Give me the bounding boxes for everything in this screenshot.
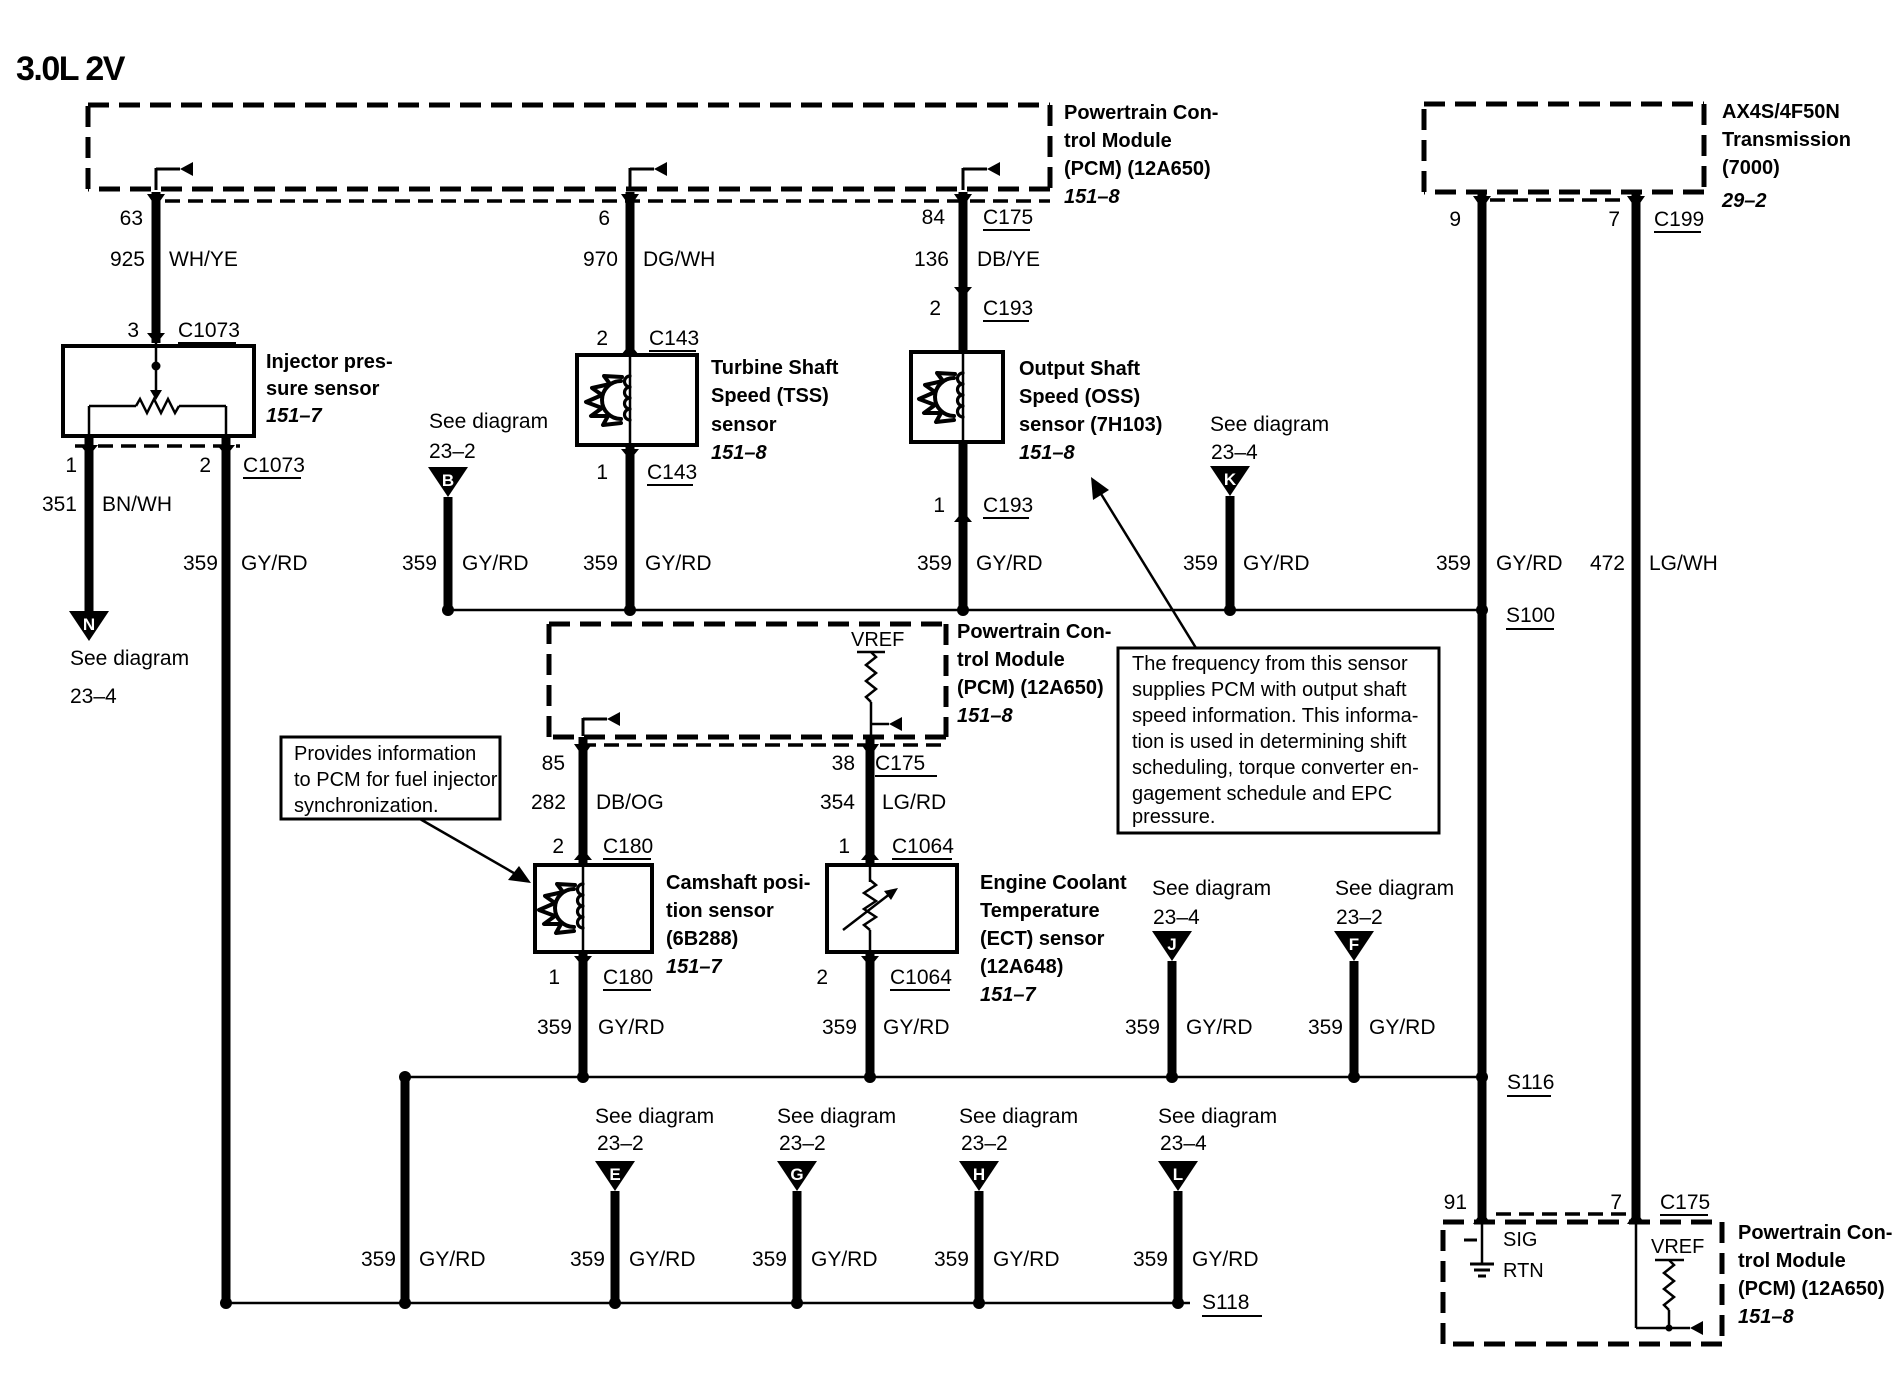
svg-text:3: 3 [127,319,139,342]
svg-text:Powertrain Con-: Powertrain Con- [1064,102,1218,124]
svg-text:136: 136 [914,248,949,271]
svg-text:VREF: VREF [851,629,904,651]
svg-text:38: 38 [832,752,855,775]
svg-text:23–2: 23–2 [779,1132,826,1155]
note2 arrowhead [1091,477,1109,500]
injector potentiometer internals [155,343,158,365]
svg-text:282: 282 [531,791,566,814]
svg-text:7: 7 [1608,208,1620,231]
svg-text:See diagram: See diagram [595,1105,714,1128]
svg-text:GY/RD: GY/RD [1192,1248,1259,1271]
svg-text:GY/RD: GY/RD [462,552,529,575]
svg-text:C1064: C1064 [890,966,952,989]
svg-text:151–8: 151–8 [1738,1306,1794,1328]
triangle connector J [1152,931,1192,961]
junction dot S118 left [220,1297,232,1309]
splice bus S116 [405,1076,1482,1079]
junction dot J/S116 [1166,1071,1178,1083]
junction dot TSS/S100 [624,604,636,616]
svg-text:23–4: 23–4 [70,685,117,708]
svg-text:359: 359 [583,552,618,575]
svg-text:sure sensor: sure sensor [266,378,380,400]
connector C175 dashed line above bottom PCM [1496,1212,1628,1216]
svg-text:151–7: 151–7 [980,984,1036,1006]
middle PCM internal arrow at pin 38 [871,723,889,726]
junction dot OSS/S100 [957,604,969,616]
svg-text:Temperature: Temperature [980,900,1100,922]
triangle connector L [1158,1161,1198,1191]
wire 359 GY/RD (L) [1174,1191,1183,1303]
svg-text:1: 1 [933,494,945,517]
svg-text:C1073: C1073 [243,454,305,477]
svg-text:91: 91 [1444,1191,1467,1214]
connector C199 dashed line under transmission [1490,198,1628,202]
Engine Coolant Temperature sensor box [827,865,957,952]
Injector pressure sensor box [63,346,254,436]
SIG RTN internal ground (bottom PCM) [1481,1222,1484,1264]
svg-text:151–8: 151–8 [1064,186,1120,208]
svg-text:151–7: 151–7 [666,956,722,978]
svg-text:DB/OG: DB/OG [596,791,664,814]
svg-text:1: 1 [65,454,77,477]
PCM internal arrow at pin 84 [962,168,965,190]
svg-text:GY/RD: GY/RD [1243,552,1310,575]
Turbine Shaft Speed sensor box [577,355,697,445]
svg-text:23–4: 23–4 [1211,441,1258,464]
svg-text:RTN: RTN [1503,1260,1544,1282]
PCM module box (top, dashed) [88,103,1050,108]
PCM internal arrow at pin 6 [629,168,632,190]
svg-text:VREF: VREF [1651,1236,1704,1258]
svg-text:S118: S118 [1202,1291,1250,1314]
svg-text:GY/RD: GY/RD [598,1016,665,1039]
junction dot camshaft/S116 [577,1071,589,1083]
svg-text:GY/RD: GY/RD [1369,1016,1436,1039]
svg-text:pressure.: pressure. [1132,806,1215,828]
svg-text:trol Module: trol Module [1738,1250,1846,1272]
svg-text:Powertrain Con-: Powertrain Con- [957,621,1111,643]
Camshaft position sensor box [535,865,652,952]
wire 359 GY/RD (B) [444,497,453,610]
PCM module box (bottom, dashed) [1443,1220,1722,1225]
svg-text:63: 63 [120,207,143,230]
svg-text:DB/YE: DB/YE [977,248,1040,271]
wire through camshaft box [582,865,585,952]
svg-text:WH/YE: WH/YE [169,248,238,271]
svg-text:C175: C175 [1660,1191,1710,1214]
svg-text:1: 1 [838,835,850,858]
svg-text:S116: S116 [1507,1071,1555,1094]
svg-text:LG/WH: LG/WH [1649,552,1718,575]
AX4S/4F50N Transmission box (dashed) [1424,102,1704,107]
svg-text:F: F [1349,935,1359,954]
junction dot S100 [1476,604,1488,616]
svg-text:970: 970 [583,248,618,271]
wire 359 GY/RD (K) [1226,496,1235,610]
svg-text:See diagram: See diagram [70,647,189,670]
svg-text:151–8: 151–8 [957,705,1013,727]
svg-text:1: 1 [596,461,608,484]
svg-text:N: N [83,615,95,634]
wire 359 GY/RD (camshaft pin 1) [579,952,588,1077]
svg-text:supplies PCM with output shaft: supplies PCM with output shaft [1132,679,1407,701]
svg-text:See diagram: See diagram [1335,877,1454,900]
wire 359 GY/RD (J) [1168,961,1177,1077]
junction dot ECT/S116 [864,1071,876,1083]
C1073 underline [178,342,236,344]
svg-text:gagement schedule and EPC: gagement schedule and EPC [1132,783,1392,805]
wire 359 GY/RD (E) [611,1191,620,1303]
wire 359 GY/RD (transmission pin 9) [1478,192,1487,1222]
svg-text:See diagram: See diagram [959,1105,1078,1128]
svg-text:359: 359 [183,552,218,575]
ECT thermistor icon [869,865,872,882]
svg-text:2: 2 [552,835,564,858]
wire 354 LG/RD (pin 38) [866,737,875,867]
svg-text:synchronization.: synchronization. [294,795,439,817]
PCM module box (middle, dashed) [549,622,946,627]
svg-text:84: 84 [922,206,946,229]
svg-text:359: 359 [1436,552,1471,575]
svg-text:359: 359 [537,1016,572,1039]
svg-text:Provides information: Provides information [294,743,476,765]
connector C175 dashed line under PCM [165,199,1050,203]
svg-text:GY/RD: GY/RD [976,552,1043,575]
svg-text:359: 359 [752,1248,787,1271]
svg-text:S100: S100 [1506,604,1555,627]
svg-text:GY/RD: GY/RD [645,552,712,575]
svg-text:G: G [790,1165,803,1184]
svg-text:23–2: 23–2 [961,1132,1008,1155]
connector C1073 dashed line under injector box [75,444,240,448]
wire 351 BN/WH [85,436,94,611]
svg-text:trol Module: trol Module [957,649,1065,671]
note box: OSS frequency explanation [1118,648,1439,833]
svg-text:J: J [1167,935,1176,954]
svg-text:See diagram: See diagram [1210,413,1329,436]
triangle connector N [69,611,109,641]
svg-text:GY/RD: GY/RD [1186,1016,1253,1039]
wire 359 GY/RD (H) [975,1191,984,1303]
junction dot E/S118 [609,1297,621,1309]
triangle connector H [959,1161,999,1191]
svg-text:Powertrain Con-: Powertrain Con- [1738,1222,1892,1244]
svg-text:H: H [973,1165,985,1184]
svg-text:speed information. This inform: speed information. This informa- [1132,705,1418,727]
svg-text:Output Shaft: Output Shaft [1019,358,1140,380]
junction dot S116 left [399,1071,411,1083]
wire 925 WH/YE (pin 63) [152,192,161,343]
junction dot K/S100 [1224,604,1236,616]
triangle connector E [595,1161,635,1191]
svg-text:Turbine Shaft: Turbine Shaft [711,357,839,379]
wire through OSS box [962,352,965,442]
svg-text:29–2: 29–2 [1721,190,1767,212]
wire 282 DB/OG (pin 85) [579,737,588,867]
svg-text:3.0L 2V: 3.0L 2V [16,50,126,88]
svg-text:359: 359 [822,1016,857,1039]
svg-text:The frequency from this sensor: The frequency from this sensor [1132,653,1408,675]
svg-text:359: 359 [1183,552,1218,575]
svg-text:tion is used in determining sh: tion is used in determining shift [1132,731,1407,753]
svg-text:(PCM) (12A650): (PCM) (12A650) [957,677,1104,699]
svg-text:GY/RD: GY/RD [241,552,308,575]
svg-text:(7000): (7000) [1722,157,1780,179]
svg-text:tion sensor: tion sensor [666,900,774,922]
svg-text:359: 359 [1125,1016,1160,1039]
svg-text:C193: C193 [983,297,1033,320]
svg-text:See diagram: See diagram [1152,877,1271,900]
svg-text:Speed (OSS): Speed (OSS) [1019,386,1140,408]
triangle connector F [1334,931,1374,961]
svg-text:scheduling, torque converter e: scheduling, torque converter en- [1132,757,1419,779]
splice bus S100 [448,609,1482,612]
svg-text:23–4: 23–4 [1160,1132,1207,1155]
svg-text:351: 351 [42,493,77,516]
svg-text:6: 6 [598,207,610,230]
svg-text:23–2: 23–2 [429,440,476,463]
svg-text:C175: C175 [875,752,925,775]
svg-text:B: B [442,471,454,490]
note2 pointer line [1098,489,1196,648]
svg-text:Camshaft posi-: Camshaft posi- [666,872,810,894]
svg-text:23–2: 23–2 [1336,906,1383,929]
wire 359 GY/RD (ECT pin 2) [866,952,875,1077]
svg-text:Speed (TSS): Speed (TSS) [711,385,829,407]
svg-text:(12A648): (12A648) [980,956,1063,978]
triangle connector K [1210,466,1250,496]
svg-text:23–4: 23–4 [1153,906,1200,929]
svg-text:Transmission: Transmission [1722,129,1851,151]
svg-text:DG/WH: DG/WH [643,248,715,271]
svg-text:359: 359 [1133,1248,1168,1271]
minus sign [1464,1239,1477,1242]
junction dot G/S118 [791,1297,803,1309]
svg-text:Injector pres-: Injector pres- [266,351,393,373]
junction dot B/S100 [442,604,454,616]
svg-text:Engine Coolant: Engine Coolant [980,872,1127,894]
svg-text:BN/WH: BN/WH [102,493,172,516]
wire 472 LG/WH (transmission pin 7) [1632,192,1641,1222]
camshaft sensor gear-coil icon [539,884,583,933]
triangle connector B [428,467,468,497]
svg-text:sensor (7H103): sensor (7H103) [1019,414,1162,436]
Output Shaft Speed sensor box [911,352,1003,442]
svg-text:151–8: 151–8 [1019,442,1075,464]
svg-text:C199: C199 [1654,208,1704,231]
splice bus S118 [226,1302,1190,1305]
junction dot L/S118 [1172,1297,1184,1309]
svg-text:(PCM) (12A650): (PCM) (12A650) [1064,158,1211,180]
svg-text:2: 2 [596,327,608,350]
note1 arrowhead [508,866,531,883]
svg-text:trol Module: trol Module [1064,130,1172,152]
svg-text:C180: C180 [603,966,653,989]
svg-text:359: 359 [1308,1016,1343,1039]
svg-text:2: 2 [199,454,211,477]
svg-text:359: 359 [934,1248,969,1271]
svg-text:See diagram: See diagram [1158,1105,1277,1128]
OSS sensor gear-coil icon [919,373,963,422]
svg-text:7: 7 [1610,1191,1622,1214]
svg-text:GY/RD: GY/RD [629,1248,696,1271]
junction dot x405/S118 [399,1297,411,1309]
svg-text:23–2: 23–2 [597,1132,644,1155]
svg-text:K: K [1224,470,1237,489]
junction dot S116 right [1476,1071,1488,1083]
svg-text:See diagram: See diagram [777,1105,896,1128]
middle PCM internal arrow at pin 85 [582,718,585,736]
junction dot H/S118 [973,1297,985,1309]
svg-text:GY/RD: GY/RD [883,1016,950,1039]
TSS sensor gear-coil icon [586,376,630,425]
svg-text:2: 2 [929,297,941,320]
svg-text:(PCM) (12A650): (PCM) (12A650) [1738,1278,1885,1300]
note box: fuel injector synchronization [281,737,500,819]
svg-text:GY/RD: GY/RD [993,1248,1060,1271]
svg-text:359: 359 [917,552,952,575]
svg-text:1: 1 [548,966,560,989]
svg-text:SIG: SIG [1503,1229,1537,1251]
svg-text:359: 359 [361,1248,396,1271]
triangle connector G [777,1161,817,1191]
svg-text:151–7: 151–7 [266,405,322,427]
wire 359 GY/RD (TSS pin 1) [626,445,635,610]
svg-text:LG/RD: LG/RD [882,791,946,814]
connector C175 dashed line under middle PCM [581,743,946,747]
svg-text:to PCM for fuel injector: to PCM for fuel injector [294,769,498,791]
svg-text:C1073: C1073 [178,319,240,342]
svg-text:AX4S/4F50N: AX4S/4F50N [1722,101,1840,123]
svg-text:GY/RD: GY/RD [1496,552,1563,575]
svg-text:C1064: C1064 [892,835,954,858]
svg-text:354: 354 [820,791,855,814]
wire 359 GY/RD (F) [1350,961,1359,1077]
svg-text:GY/RD: GY/RD [811,1248,878,1271]
svg-text:E: E [609,1165,620,1184]
wire 359 GY/RD (G) [793,1191,802,1303]
wire 136 DB/YE (pin 84) [959,192,968,354]
svg-text:C143: C143 [649,327,699,350]
svg-text:9: 9 [1449,208,1461,231]
svg-text:359: 359 [570,1248,605,1271]
wire 359 GY/RD (S116 to S118) [401,1077,410,1303]
svg-text:925: 925 [110,248,145,271]
svg-text:C175: C175 [983,206,1033,229]
svg-text:151–8: 151–8 [711,442,767,464]
svg-text:C180: C180 [603,835,653,858]
svg-text:C143: C143 [647,461,697,484]
note1 pointer line [420,819,519,876]
svg-text:See diagram: See diagram [429,410,548,433]
svg-text:85: 85 [542,752,565,775]
svg-text:L: L [1173,1165,1183,1184]
svg-text:472: 472 [1590,552,1625,575]
wire 359 GY/RD (injector pin 2) [222,436,231,1303]
junction dot F/S116 [1348,1071,1360,1083]
wire through TSS box [629,355,632,445]
svg-text:sensor: sensor [711,414,777,436]
PCM internal arrow at pin 63 [155,168,158,190]
svg-text:GY/RD: GY/RD [419,1248,486,1271]
svg-text:359: 359 [402,552,437,575]
svg-text:(6B288): (6B288) [666,928,738,950]
wire 970 DG/WH (pin 6) [626,192,635,357]
svg-text:2: 2 [816,966,828,989]
wire 359 GY/RD (OSS pin 1) [959,442,968,610]
svg-text:(ECT) sensor: (ECT) sensor [980,928,1105,950]
svg-text:C193: C193 [983,494,1033,517]
